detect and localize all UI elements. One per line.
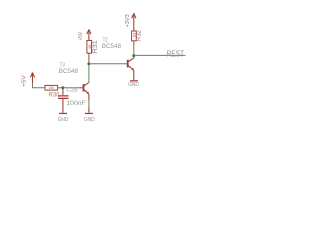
ground GND2 (below T3) bbox=[85, 113, 93, 114]
svg-text:+5V: +5V bbox=[78, 31, 84, 40]
T2 emitter stroke bbox=[128, 66, 133, 70]
T2 base bar bbox=[127, 60, 129, 68]
T2 emitter lead to ground bbox=[133, 70, 135, 80]
svg-text:C28: C28 bbox=[66, 88, 77, 94]
wire T2 collector net (vertical) bbox=[133, 46, 135, 58]
transistor T2 bbox=[127, 58, 134, 71]
R31 bottom lead bbox=[88, 53, 90, 61]
T3 emitter stroke bbox=[84, 90, 88, 93]
T3 collector stroke bbox=[84, 82, 89, 85]
svg-text:GND: GND bbox=[58, 117, 69, 123]
T2 emitter arrowhead bbox=[131, 68, 134, 71]
T3 emitter arrowhead bbox=[87, 91, 90, 94]
T3 emitter pin lead bbox=[88, 94, 90, 100]
C28 top lead bbox=[62, 89, 64, 96]
supply +3V3 symbol bbox=[132, 13, 136, 31]
resistor R31 bbox=[87, 41, 92, 54]
capacitor C28 bbox=[58, 95, 69, 99]
svg-text:BC548: BC548 bbox=[102, 43, 122, 50]
transistor T3 bbox=[83, 82, 90, 94]
wire T3 collector net (vertical) bbox=[88, 61, 90, 82]
T2 base pin bbox=[125, 63, 127, 65]
T2 collector stroke bbox=[128, 58, 133, 62]
ground GND1 (below C28) bbox=[59, 113, 67, 114]
svg-text:R32: R32 bbox=[137, 29, 143, 41]
supply +5V symbol (left) bbox=[30, 73, 34, 84]
resistor R32 bbox=[132, 31, 137, 41]
supply +5V symbol (R31) bbox=[87, 30, 91, 41]
wire +5V to R30 bbox=[33, 83, 46, 88]
wire junction to T3 base bbox=[63, 87, 79, 89]
svg-text:10k: 10k bbox=[88, 44, 92, 49]
T3 base pin bbox=[79, 87, 83, 89]
svg-text:+3V3: +3V3 bbox=[125, 14, 131, 27]
junction node T2 collector / REST bbox=[132, 54, 135, 57]
junction node R30/C28 bbox=[61, 86, 64, 89]
svg-text:+5V: +5V bbox=[22, 75, 28, 87]
wire emitter net to GND2 bbox=[88, 100, 90, 108]
svg-text:GND: GND bbox=[128, 82, 139, 88]
svg-text:REST: REST bbox=[167, 50, 185, 59]
wire REST net bbox=[134, 54, 186, 56]
wire R30 to junction bbox=[58, 87, 63, 89]
svg-text:R31: R31 bbox=[93, 40, 99, 54]
wire base net to T2 bbox=[89, 63, 125, 65]
ground GND3 (below T2) bbox=[130, 80, 138, 81]
svg-text:BC548: BC548 bbox=[59, 68, 79, 75]
R32 bottom lead bbox=[133, 41, 135, 46]
T3 base bar bbox=[83, 84, 85, 92]
C28 bottom lead bbox=[62, 99, 64, 113]
svg-text:GND: GND bbox=[84, 117, 95, 123]
svg-text:100nF: 100nF bbox=[66, 100, 86, 107]
GND2 pin lead bbox=[88, 108, 90, 113]
resistor R30 bbox=[45, 85, 58, 90]
svg-text:10k: 10k bbox=[49, 86, 54, 90]
junction node T3 collector bbox=[87, 62, 90, 65]
